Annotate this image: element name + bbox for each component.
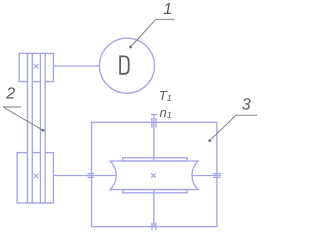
bearing bottom xyxy=(152,223,156,231)
leader for label 1 xyxy=(129,19,174,48)
worm wheel body xyxy=(110,161,198,190)
motor letter D xyxy=(120,56,129,73)
belt left run xyxy=(28,53,33,203)
pulley P2 (bottom) xyxy=(17,153,53,203)
wire: vertical output shaft xyxy=(153,115,155,227)
gearbox housing xyxy=(92,122,217,226)
bearing right xyxy=(213,174,221,178)
motor U circle xyxy=(100,38,155,93)
wire: shaft from top pulley to motor xyxy=(53,65,99,67)
wheel rim cap bottom xyxy=(123,190,188,193)
svg-text:T1: T1 xyxy=(159,88,172,103)
pulley P1 (top) xyxy=(19,53,53,81)
svg-text:n1: n1 xyxy=(160,105,172,120)
leader for label 3 xyxy=(208,115,257,142)
bearing top xyxy=(152,118,156,128)
svg-text:3: 3 xyxy=(242,97,251,114)
bearing left xyxy=(88,174,95,178)
wire: horizontal worm shaft xyxy=(53,175,221,177)
wheel rim cap top xyxy=(123,158,188,161)
svg-text:2: 2 xyxy=(5,86,15,103)
node x-mark top pulley xyxy=(34,64,39,69)
leader for label 2 xyxy=(3,107,44,132)
node x-mark wheel center xyxy=(151,173,156,178)
node x-mark bottom pulley xyxy=(34,174,39,179)
belt right run xyxy=(40,53,45,203)
svg-text:1: 1 xyxy=(163,1,172,18)
shaft end cap xyxy=(151,114,157,116)
